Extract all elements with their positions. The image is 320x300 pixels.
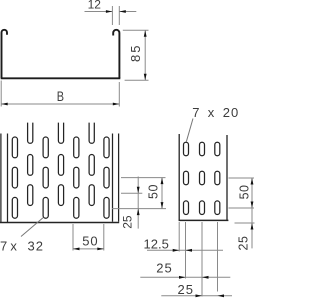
- svg-text:B: B: [57, 89, 64, 105]
- svg-text:85: 85: [128, 44, 143, 62]
- svg-text:7: 7: [192, 105, 199, 120]
- svg-text:x: x: [208, 105, 215, 120]
- svg-text:50: 50: [238, 184, 252, 199]
- svg-text:25: 25: [237, 236, 251, 251]
- svg-text:32: 32: [28, 239, 44, 254]
- svg-text:x: x: [10, 239, 17, 254]
- svg-text:12.5: 12.5: [144, 236, 169, 251]
- svg-text:25: 25: [178, 282, 194, 297]
- svg-text:20: 20: [223, 105, 239, 120]
- svg-text:50: 50: [82, 234, 98, 249]
- svg-text:7: 7: [0, 239, 7, 254]
- svg-text:25: 25: [156, 261, 172, 276]
- svg-text:25: 25: [121, 215, 135, 229]
- svg-text:12: 12: [88, 0, 102, 11]
- svg-text:50: 50: [147, 184, 161, 199]
